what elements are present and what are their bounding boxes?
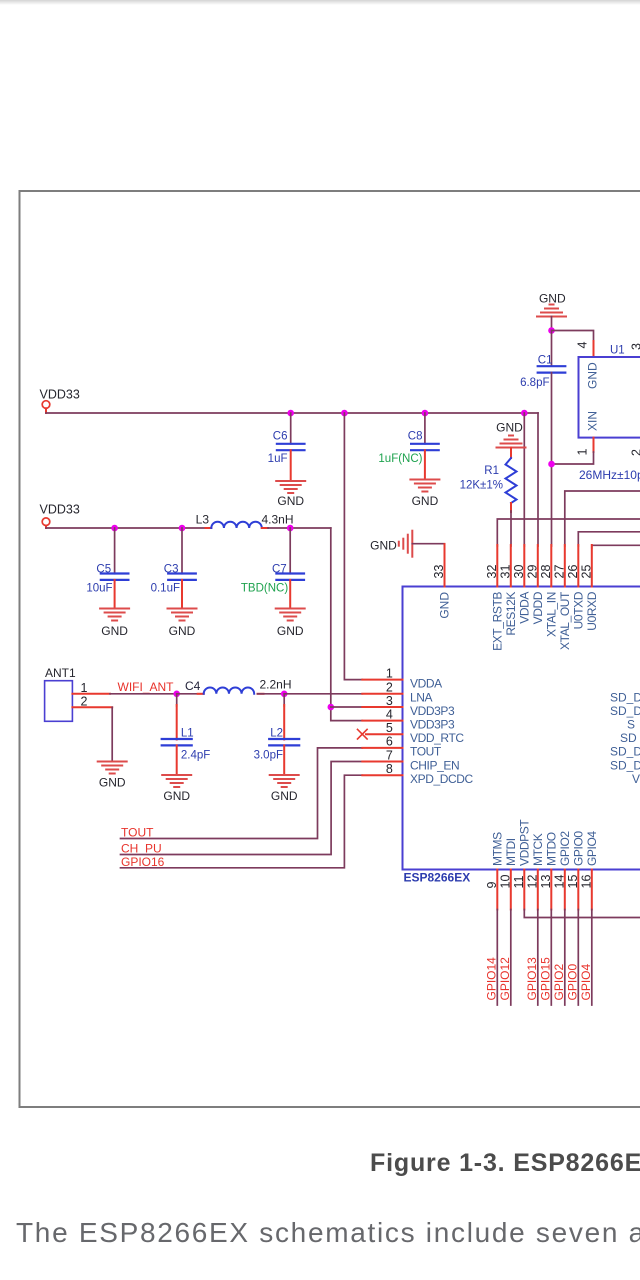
svg-text:6: 6 (386, 735, 393, 749)
svg-text:GND: GND (586, 362, 600, 389)
wire R1 to pin 31 RES12K (510, 503, 512, 512)
figure caption (370, 1149, 640, 1178)
wire CH_PU to pin 7 (121, 762, 363, 855)
svg-text:VI: VI (632, 772, 640, 786)
svg-text:EXT_RSTB: EXT_RSTB (490, 592, 504, 651)
svg-text:C6: C6 (273, 431, 288, 443)
svg-text:VDDA: VDDA (410, 676, 442, 690)
svg-text:14: 14 (552, 875, 566, 889)
svg-text:30: 30 (512, 565, 526, 579)
wire U1 pin 1 to XIN node (552, 452, 594, 464)
ground below C5 (100, 609, 129, 621)
svg-text:GND: GND (271, 789, 298, 803)
svg-text:32: 32 (485, 565, 499, 579)
ground below ANT1 (98, 762, 127, 774)
svg-text:VDDA: VDDA (517, 592, 531, 624)
svg-text:L2: L2 (270, 728, 283, 740)
pin 10 MTDI stub (510, 870, 512, 910)
svg-text:3: 3 (630, 343, 640, 350)
svg-text:4.3nH: 4.3nH (262, 513, 294, 527)
wire pin 9 to GPIO14 (496, 910, 498, 1006)
U1 pin 1 stub (593, 438, 595, 452)
svg-text:GPIO4: GPIO4 (585, 831, 599, 866)
svg-text:SD_D: SD_D (610, 691, 640, 705)
wire rail corner to pin 29 VDDD (537, 413, 539, 546)
node junction C6 on rail (287, 410, 294, 417)
pin 6 TOUT stub (362, 747, 402, 749)
svg-text:29: 29 (525, 565, 539, 579)
svg-text:U0RXD: U0RXD (585, 591, 599, 630)
inductor L3 (206, 527, 212, 529)
svg-text:C5: C5 (96, 564, 111, 576)
crystal U1 box (579, 357, 640, 438)
svg-text:12K±1%: 12K±1% (460, 480, 503, 492)
svg-text:GND: GND (370, 538, 397, 552)
ground below C6 (276, 481, 305, 493)
svg-text:U0TXD: U0TXD (571, 591, 585, 629)
pin 27 XTAL_OUT stub (564, 545, 566, 587)
ground below C3 (168, 609, 197, 621)
svg-text:1uF: 1uF (268, 453, 288, 465)
pin 8 XPD_DCDC stub (362, 774, 402, 776)
svg-text:1: 1 (386, 666, 393, 680)
node junction pin3 feed (328, 704, 335, 711)
wire U0TXD net to pin 26 (578, 532, 640, 546)
svg-text:GND: GND (412, 494, 439, 508)
svg-text:VDD33: VDD33 (40, 503, 80, 517)
svg-text:GPIO4: GPIO4 (579, 963, 593, 1000)
wire VDD33 rail lower (46, 527, 206, 529)
svg-text:LNA: LNA (410, 691, 433, 705)
svg-text:31: 31 (498, 565, 512, 579)
wire ground to pin 33 (412, 543, 444, 545)
capacitor C8 (424, 413, 426, 444)
capacitor L1 (176, 694, 178, 706)
svg-text:26MHz±10ppm: 26MHz±10ppm (579, 468, 640, 482)
wire L3 to VDD3P3 drop (268, 527, 331, 529)
svg-text:6.8pF: 6.8pF (520, 377, 549, 389)
svg-text:7: 7 (386, 748, 393, 762)
wire pin 15 to GPIO0 (577, 910, 579, 1006)
svg-text:4: 4 (386, 707, 393, 721)
node junction C5 on rail (111, 525, 118, 532)
terminal circle VDD33 upper (42, 401, 50, 409)
svg-text:C4: C4 (185, 679, 201, 693)
capacitor C7 (289, 528, 291, 574)
wire VDD33 rail upper (46, 412, 538, 414)
pin 32 EXT_RSTB stub (496, 545, 498, 587)
wire VDDPST pin 11 net (524, 910, 640, 918)
wire C6 to ground (290, 450, 292, 481)
pin 1 VDDA stub (362, 679, 402, 681)
node junction C8 on rail (422, 410, 429, 417)
ANT1 pin 1 stub (72, 693, 110, 695)
svg-text:GPIO2: GPIO2 (552, 963, 566, 1000)
node junction L2/LNA (281, 691, 288, 698)
svg-text:GND: GND (277, 624, 304, 638)
svg-text:GPIO15: GPIO15 (538, 957, 552, 1001)
svg-text:10uF: 10uF (86, 583, 112, 595)
svg-text:GND: GND (169, 624, 196, 638)
svg-text:SD_D: SD_D (610, 704, 640, 718)
wire GPIO16 to pin 8 (121, 775, 363, 868)
svg-text:5: 5 (386, 721, 393, 735)
pin 4 VDD3P3 stub (362, 720, 402, 722)
svg-text:10: 10 (498, 875, 512, 889)
pin 3 VDD3P3 stub (362, 706, 402, 708)
svg-text:TOUT: TOUT (410, 745, 442, 759)
terminal circle VDD33 lower (42, 518, 50, 526)
svg-text:3.0pF: 3.0pF (254, 750, 283, 762)
wire pin 16 to GPIO4 (591, 910, 593, 1006)
wire WIFI_ANT (110, 693, 177, 695)
body paragraph (16, 1217, 640, 1249)
svg-text:XTAL_OUT: XTAL_OUT (558, 591, 572, 650)
svg-text:VDD3P3: VDD3P3 (410, 717, 455, 731)
svg-text:WIFI_ANT: WIFI_ANT (118, 680, 175, 694)
svg-text:RES12K: RES12K (504, 592, 518, 636)
svg-text:27: 27 (552, 565, 566, 579)
ground below C8 (410, 480, 439, 492)
ground below C7 (276, 609, 305, 621)
IC ESP8266EX box (403, 587, 640, 870)
svg-text:GPIO13: GPIO13 (525, 957, 539, 1001)
svg-text:L3: L3 (196, 513, 210, 527)
svg-text:25: 25 (579, 565, 593, 579)
svg-text:C7: C7 (272, 564, 287, 576)
svg-text:GPIO0: GPIO0 (571, 831, 585, 866)
svg-text:GPIO12: GPIO12 (498, 957, 512, 1001)
svg-text:1: 1 (576, 449, 590, 456)
svg-text:33: 33 (432, 565, 446, 579)
svg-text:GND: GND (99, 776, 126, 790)
svg-text:11: 11 (512, 875, 526, 888)
svg-text:26: 26 (566, 565, 580, 579)
svg-text:U1: U1 (610, 345, 625, 357)
resistor R1 (510, 448, 512, 459)
svg-text:GND: GND (163, 789, 190, 803)
wire coil to L2 node (258, 693, 285, 695)
wire XTAL_OUT net to pin 27 (565, 491, 640, 546)
svg-text:CHIP_EN: CHIP_EN (410, 758, 459, 772)
svg-text:XIN: XIN (586, 411, 600, 431)
wire pin 10 to GPIO12 (510, 910, 512, 1006)
svg-text:L1: L1 (181, 728, 194, 740)
wire VDD3P3 feed down (331, 528, 363, 721)
svg-text:3: 3 (386, 694, 393, 708)
node junction C7 on rail (287, 525, 294, 532)
pin 14 GPIO2 stub (564, 870, 566, 910)
svg-text:GND: GND (101, 624, 128, 638)
wire U0RXD net to pin 25 (592, 545, 640, 548)
pin 5 VDD_RTC stub (366, 733, 403, 735)
svg-text:GND: GND (496, 421, 523, 435)
svg-text:2: 2 (630, 449, 640, 456)
node junction XIN net (548, 461, 555, 468)
U1 pin 4 stub (593, 341, 595, 357)
wire C8 to ground (424, 450, 426, 479)
svg-text:28: 28 (539, 565, 553, 579)
svg-text:C3: C3 (164, 564, 179, 576)
capacitor C5 (114, 528, 116, 574)
capacitor C1 (551, 331, 553, 367)
svg-text:GPIO14: GPIO14 (484, 957, 498, 1001)
no-connect cross VDD_RTC (358, 729, 368, 739)
svg-text:2: 2 (386, 681, 393, 695)
svg-text:C8: C8 (408, 431, 423, 443)
pin 30 VDDA stub (523, 545, 525, 587)
node junction VDDA pin30 drop on rail (521, 410, 528, 417)
wire pin 13 to GPIO15 (550, 910, 552, 1006)
pin 13 MTDO stub (550, 870, 552, 910)
svg-text:13: 13 (539, 875, 553, 889)
wire C3 to ground (181, 580, 183, 609)
wire junction to U1 pin 4 (552, 331, 594, 344)
svg-text:1: 1 (81, 681, 88, 695)
svg-text:2: 2 (81, 695, 88, 709)
wire rail to pin 30 VDDA (523, 413, 525, 546)
svg-text:15: 15 (566, 875, 580, 889)
pin 12 MTCK stub (537, 870, 539, 910)
wire LNA to pin 2 (284, 693, 362, 695)
svg-text:0.1uF: 0.1uF (151, 583, 180, 595)
node junction C1/U1-pin4 GND net (548, 327, 555, 334)
svg-text:VDD33: VDD33 (40, 388, 80, 402)
pin 7 CHIP_EN stub (362, 761, 402, 763)
wire pin 12 to GPIO13 (537, 910, 539, 1006)
svg-text:VDD3P3: VDD3P3 (410, 704, 455, 718)
svg-text:MTCK: MTCK (531, 833, 545, 866)
pin 25 U0RXD stub (591, 545, 593, 587)
svg-text:GPIO16: GPIO16 (121, 855, 165, 869)
svg-text:SD_D: SD_D (610, 758, 640, 772)
wire C7 to ground (289, 580, 291, 609)
svg-text:MTMS: MTMS (490, 832, 504, 866)
svg-text:2.4pF: 2.4pF (181, 750, 210, 762)
wire C5 to ground (114, 580, 116, 609)
wire L1 to ground (176, 745, 178, 775)
pin 2 LNA stub (362, 693, 402, 695)
pin 9 MTMS stub (496, 870, 498, 910)
svg-text:VDDD: VDDD (531, 591, 545, 624)
ANT1 pin 2 stub (72, 706, 112, 708)
svg-text:2.2nH: 2.2nH (260, 678, 292, 692)
pin 11 VDDPST stub (523, 870, 525, 910)
svg-text:S: S (627, 717, 635, 731)
svg-text:GND: GND (539, 292, 566, 306)
svg-text:C1: C1 (538, 355, 553, 367)
svg-text:MTDO: MTDO (544, 832, 558, 866)
svg-text:TBD(NC): TBD(NC) (241, 583, 288, 595)
svg-text:VDDPST: VDDPST (517, 819, 531, 866)
wire pin 14 to GPIO2 (564, 910, 566, 1006)
svg-text:9: 9 (485, 882, 499, 889)
svg-text:GPIO0: GPIO0 (565, 963, 579, 1000)
pin 16 GPIO4 stub (591, 870, 593, 910)
svg-text:SD_D: SD_D (610, 745, 640, 759)
ground below L1 (162, 775, 191, 787)
svg-text:GND: GND (438, 592, 452, 619)
wire feed to pin 3 VDD3P3 (331, 706, 363, 708)
svg-text:16: 16 (579, 875, 593, 889)
wire L2 to ground (283, 745, 285, 775)
node junction VDDA feed on rail (341, 410, 348, 417)
svg-text:CH_PU: CH_PU (121, 841, 162, 855)
svg-text:GPIO2: GPIO2 (558, 831, 572, 866)
svg-text:TOUT: TOUT (121, 826, 154, 840)
wire C1 to XTAL_IN (pin 28) (551, 373, 553, 546)
node junction C3 on rail (179, 525, 186, 532)
wire ANT1 pin2 to ground (111, 707, 113, 761)
wire TOUT to pin 6 (121, 748, 363, 839)
ground below L2 (270, 775, 299, 787)
pin 15 GPIO0 stub (577, 870, 579, 910)
svg-text:XPD_DCDC: XPD_DCDC (410, 772, 474, 786)
pin 26 U0TXD stub (577, 545, 579, 587)
svg-text:12: 12 (525, 875, 539, 889)
svg-text:4: 4 (576, 342, 590, 349)
wire GND symbol to node XIN junction (551, 317, 553, 331)
node junction L1/antenna (173, 691, 180, 698)
svg-text:8: 8 (386, 762, 393, 776)
pin 28 XTAL_IN stub (550, 545, 552, 587)
svg-text:VDD_RTC: VDD_RTC (410, 731, 464, 745)
svg-text:MTDI: MTDI (504, 838, 518, 866)
svg-text:SD: SD (620, 731, 637, 745)
svg-text:ANT1: ANT1 (45, 666, 76, 680)
pin 33 GND stub (444, 544, 446, 587)
pin 31 RES12K stub (510, 545, 512, 587)
wire VDD33 to pin 1 VDDA (344, 413, 362, 680)
svg-text:R1: R1 (484, 465, 499, 477)
wire EXT_RSTB net to pin 32 (497, 519, 640, 546)
capacitor C6 (290, 413, 292, 444)
schematic frame (20, 191, 640, 1107)
capacitor L2 (283, 694, 285, 706)
pin 29 VDDD stub (537, 545, 539, 587)
capacitor C3 (181, 528, 183, 574)
svg-text:GND: GND (277, 494, 304, 508)
svg-text:1uF(NC): 1uF(NC) (378, 453, 422, 465)
svg-text:XTAL_IN: XTAL_IN (544, 592, 558, 637)
svg-text:ESP8266EX: ESP8266EX (404, 871, 471, 885)
